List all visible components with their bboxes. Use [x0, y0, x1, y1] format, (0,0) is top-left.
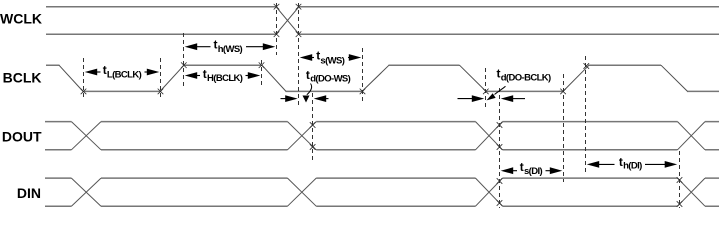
svg-text:s(WS): s(WS): [320, 55, 344, 66]
leader curve t_d(DO-WS): [307, 84, 312, 95]
dashed guide x=83.5 BCLK fall bottom: [83, 58, 85, 100]
tick DIN X4 bottom: [677, 201, 683, 207]
tick DOUT X2 bottom: [310, 144, 316, 150]
dashed guide x=160.5 BCLK rise bottom: [160, 58, 162, 100]
dimension t_H(BCLK): [185, 67, 261, 84]
tick BCLK rise bottom x=160: [158, 89, 164, 95]
dimension t_s(WS): [300, 49, 362, 67]
tick DIN X4 top: [677, 177, 683, 183]
svg-text:WCLK: WCLK: [0, 11, 42, 27]
tick WCLK X top-right: [296, 4, 302, 10]
DOUT crossover diagonals: [71, 122, 705, 150]
tick DOUT X3 top: [497, 122, 503, 128]
label t_d(DO-WS): [306, 68, 351, 85]
dashed guide x=312.5 DOUT X2 end: [312, 93, 314, 163]
svg-text:H(BCLK): H(BCLK): [207, 73, 243, 84]
dimension t_s(DI): [501, 160, 563, 177]
svg-text:L(BCLK): L(BCLK): [107, 70, 142, 81]
dashed guide x=585.5 BCLK rise top 3: [585, 56, 587, 175]
label t_d(DO-BCLK): [497, 67, 552, 84]
dashed guide x=276.5 WCLK X left: [276, 3, 278, 55]
svg-text:BCLK: BCLK: [3, 70, 42, 86]
svg-text:h(DI): h(DI): [623, 161, 642, 172]
tick BCLK rise bottom x=563: [560, 89, 566, 95]
dimension t_L(BCLK): [85, 63, 160, 81]
dashed guide x=485.5 BCLK fall bottom 2: [485, 68, 487, 107]
svg-text:DIN: DIN: [17, 185, 41, 201]
DIN crossover diagonals: [71, 178, 705, 206]
t_d(DO-WS) left measure arrow: [281, 95, 298, 102]
tick BCLK rise top x=184: [181, 62, 187, 68]
dimension t_h(DI): [587, 155, 678, 172]
BCLK waveform horizontal segments: [46, 65, 719, 91]
tick BCLK fall bottom x=83: [81, 89, 87, 95]
t_d(DO-WS) right measure arrow: [314, 95, 329, 102]
dashed guide x=679.5 DIN X4 start: [679, 151, 681, 208]
DOUT waveform horizontals: [45, 122, 719, 150]
svg-text:DOUT: DOUT: [2, 128, 42, 144]
tick WCLK X top-left: [274, 4, 280, 10]
svg-text:d(DO-WS): d(DO-WS): [310, 74, 350, 85]
leader down-arrowhead t_d(DO-WS): [303, 96, 310, 103]
dashed guide x=183.5 BCLK rise top: [183, 33, 185, 86]
tick WCLK X bottom-right: [296, 31, 302, 37]
svg-text:h(WS): h(WS): [218, 44, 243, 55]
WCLK crossover diagonals: [276, 7, 299, 35]
dashed guide x=362.5 BCLK rise bottom 2: [362, 48, 364, 103]
tick DOUT X3 bottom: [497, 144, 503, 150]
dashed guide x=499.5 DOUT/DIN X3 end: [499, 88, 501, 208]
WCLK waveform horizontal lines: [46, 7, 719, 35]
svg-text:s(DI): s(DI): [524, 166, 543, 177]
leader curve t_d(DO-BCLK): [495, 86, 506, 94]
tick BCLK rise bottom x=362: [360, 89, 366, 95]
t_d(DO-BCLK) right measure arrow: [501, 95, 525, 102]
dashed guide x=261.5 BCLK fall top: [261, 60, 263, 87]
svg-text:d(DO-BCLK): d(DO-BCLK): [501, 73, 551, 84]
dimension t_h(WS): [185, 38, 276, 56]
dashed guide x=298.5 WCLK X right: [298, 3, 300, 107]
tick marks at waveform/guide intersections: [81, 4, 683, 207]
BCLK waveform slope segments: [59, 65, 688, 91]
tick BCLK fall bottom x=486: [483, 89, 489, 95]
tick BCLK rise top x=586.5: [584, 63, 590, 69]
DIN waveform horizontals: [45, 178, 719, 206]
tick WCLK X bottom-left: [274, 31, 280, 37]
dashed guide x=563.5 BCLK rise bottom 3: [563, 74, 565, 182]
tick DOUT X2 top: [310, 122, 316, 128]
leader diagonal arrowhead t_d(DO-BCLK): [487, 93, 496, 100]
dashed guide lines: [84, 3, 680, 208]
tick DIN X3 top: [497, 178, 503, 184]
tick DIN X3 bottom: [497, 200, 503, 206]
tick BCLK fall top x=262: [259, 62, 265, 68]
t_d(DO-BCLK) left measure arrow: [458, 95, 485, 102]
